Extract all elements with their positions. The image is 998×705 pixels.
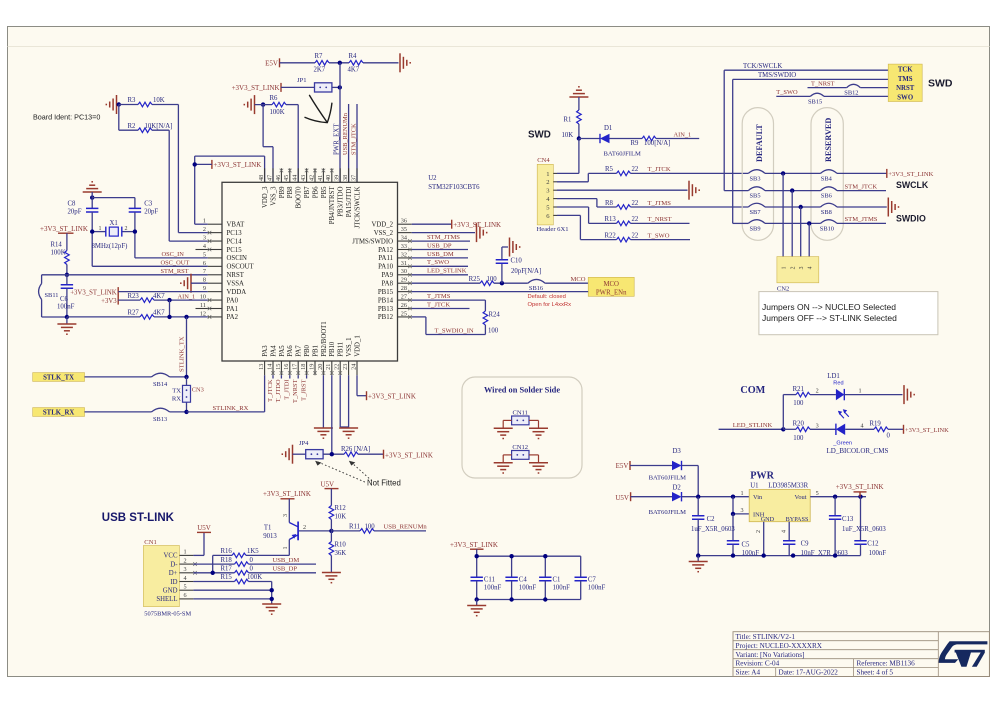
svg-text:PB7: PB7 <box>304 186 311 198</box>
junction rail GND pin <box>762 553 766 557</box>
svg-text:33: 33 <box>401 243 407 250</box>
svg-text:PA12: PA12 <box>378 247 393 254</box>
svg-text:100: 100 <box>487 276 498 283</box>
pin 34 JTMS/SWDIO <box>352 234 412 245</box>
svg-text:PB3/JTDO: PB3/JTDO <box>338 186 345 216</box>
svg-text:STM_RST: STM_RST <box>161 268 189 275</box>
svg-text:7: 7 <box>203 268 206 275</box>
ground below R10 <box>322 573 341 583</box>
svg-text:9013: 9013 <box>263 533 277 540</box>
LED LD1 red <box>827 373 844 401</box>
svg-text:22: 22 <box>632 200 639 207</box>
wire pin32 USB_DM <box>412 257 468 259</box>
svg-text:AIN_1: AIN_1 <box>674 131 692 138</box>
wire U5V to D2 <box>631 496 672 498</box>
wire GND row <box>193 589 271 591</box>
pin 17 PA7 <box>292 345 303 375</box>
svg-text:STM32F103CBT6: STM32F103CBT6 <box>428 184 480 191</box>
svg-text:100nF: 100nF <box>553 584 571 591</box>
resistor R1 10K <box>562 97 582 139</box>
capacitor C12 100nF <box>854 497 886 557</box>
svg-text:4: 4 <box>781 530 787 533</box>
svg-text:R24: R24 <box>489 312 501 319</box>
svg-text:2: 2 <box>203 226 206 233</box>
svg-text:PWR_ENn: PWR_ENn <box>596 289 627 296</box>
svg-text:PB10: PB10 <box>329 341 336 357</box>
pin 6 OSCOUT <box>203 260 255 271</box>
wire JP4 to junction to R26 <box>323 453 383 455</box>
junction R27/AIN_1 branch <box>167 315 171 319</box>
svg-text:20pF: 20pF <box>144 209 158 216</box>
svg-text:Sheet: 4 of 5: Sheet: 4 of 5 <box>857 669 894 677</box>
svg-text:C12: C12 <box>867 541 879 548</box>
wire gnd to R2 to PC14 <box>119 105 208 242</box>
pin 13 PA3 <box>258 345 269 375</box>
svg-text:R17: R17 <box>221 566 233 573</box>
pin 1 VBAT <box>203 218 245 229</box>
svg-text:39: 39 <box>334 175 341 181</box>
wire gnd to JP4 <box>293 453 306 455</box>
wire D+ junction to R16 <box>213 555 290 572</box>
svg-text:MCO: MCO <box>571 276 586 283</box>
svg-text:25: 25 <box>401 310 407 317</box>
svg-text:VBAT: VBAT <box>227 222 246 229</box>
ground at JP4 <box>282 445 292 464</box>
connector CN2 (yellow) <box>777 257 819 293</box>
junction R6/VSS_3 <box>261 102 265 106</box>
ST logo <box>939 641 988 667</box>
svg-text:34: 34 <box>401 234 407 241</box>
svg-text:2: 2 <box>816 388 819 395</box>
ground at C10 <box>510 238 520 257</box>
pin 44 BOOT0 <box>292 168 303 208</box>
svg-text:T_JTMS: T_JTMS <box>427 293 451 300</box>
pin 12 PA2 <box>200 310 239 321</box>
ground below CN1 <box>262 604 281 614</box>
svg-text:15: 15 <box>275 364 282 370</box>
resistor R18 0 <box>221 557 254 567</box>
svg-text:VDD_2: VDD_2 <box>371 222 393 229</box>
diode D1 BAT60JFILM <box>600 125 641 158</box>
resistor R21 100 <box>793 386 810 407</box>
svg-text:SB12: SB12 <box>844 90 858 97</box>
svg-text:11: 11 <box>200 302 206 309</box>
capacitor C5 100nF <box>727 514 759 557</box>
svg-text:PA7: PA7 <box>296 345 303 357</box>
resistor R12 10K <box>329 489 346 531</box>
svg-text:+3V3: +3V3 <box>101 298 117 305</box>
svg-text:42: 42 <box>308 175 315 181</box>
svg-text:JP4: JP4 <box>299 440 309 447</box>
svg-text:USB ST-LINK: USB ST-LINK <box>102 512 175 524</box>
pin 35 VSS_2 <box>374 226 412 237</box>
solder bridge SB12 <box>844 84 860 96</box>
wire pin24 VDD_1 to +3V3 <box>357 375 367 396</box>
svg-text:SB15: SB15 <box>808 99 822 106</box>
wire C3 to X1 pin2 to OSCIN pin5 <box>122 212 208 258</box>
junction R7/R4 <box>338 61 342 65</box>
stadium DEFAULT <box>742 108 773 241</box>
resistor R26 [N/A] <box>341 446 370 456</box>
wire CN4 pin2 to R5 row <box>557 173 748 181</box>
solder bridge SB14 <box>152 373 170 388</box>
pin 47 VSS_3 <box>266 168 277 205</box>
resistor R25 100 <box>469 276 498 286</box>
svg-text:R21: R21 <box>793 386 804 393</box>
pin 43 PB7 <box>300 168 311 198</box>
svg-text:TMS/SWDIO: TMS/SWDIO <box>758 72 796 79</box>
net label STM_JTCK wire to pin 37 <box>356 104 358 182</box>
svg-text:22: 22 <box>632 232 639 239</box>
svg-text:STM_JTCK: STM_JTCK <box>845 183 878 190</box>
svg-text:RESERVED: RESERVED <box>824 118 833 162</box>
pin 25 PB12 <box>378 310 412 321</box>
svg-text:C6: C6 <box>60 296 69 303</box>
svg-text:C4: C4 <box>519 576 528 583</box>
wire pin34 STM_JTMS <box>412 240 470 242</box>
svg-text:E5V: E5V <box>265 59 278 67</box>
hand-drawn arrow at JP1 <box>305 95 332 122</box>
junction STLINK_TX/PA2 <box>184 315 188 319</box>
svg-text:40: 40 <box>325 175 332 181</box>
wire pin29 MCO to R25 <box>412 282 589 284</box>
power port +3V3_ST_LINK at R19 <box>904 425 950 434</box>
wire gnd to R6 to BOOT0 pin44 and VSS_3 pin47 <box>255 105 299 183</box>
svg-text:PA2: PA2 <box>227 314 239 321</box>
svg-text:SWO: SWO <box>897 94 913 101</box>
pin 11 PA1 <box>196 302 238 313</box>
svg-text:100K: 100K <box>270 109 285 116</box>
ground at VSS_2 <box>477 223 487 242</box>
wire CN4 pin6 to R22 row <box>557 215 690 239</box>
capacitor C10 20pF[N/A] <box>496 247 542 283</box>
svg-text:14: 14 <box>266 364 273 370</box>
svg-text:48: 48 <box>258 175 265 181</box>
wire caps top rail <box>477 549 581 556</box>
ground at CN4 pin3 <box>689 181 699 200</box>
svg-text:5: 5 <box>203 251 206 258</box>
svg-text:JTMS/SWDIO: JTMS/SWDIO <box>352 238 393 245</box>
svg-text:100: 100 <box>793 435 804 442</box>
svg-text:PB13: PB13 <box>378 306 394 313</box>
capacitor C3 20pF <box>129 200 159 215</box>
solder bridge SB8 <box>821 203 838 216</box>
svg-text:T1: T1 <box>264 525 272 532</box>
svg-text:10: 10 <box>200 293 206 300</box>
svg-text:PB9: PB9 <box>279 186 286 198</box>
svg-text:PA3: PA3 <box>262 345 269 357</box>
svg-text:Project: NUCLEO-XXXXRX: Project: NUCLEO-XXXXRX <box>736 642 823 650</box>
junction rail C9 <box>791 553 795 557</box>
svg-text:2: 2 <box>184 557 187 564</box>
svg-text:R27: R27 <box>128 310 140 317</box>
junction AIN_1/R27 <box>167 298 171 302</box>
svg-text:3: 3 <box>203 234 206 241</box>
resistor R9 100[N/A] <box>631 136 671 147</box>
pin 37 JTCK/SWCLK <box>350 168 361 228</box>
power port +3V3_ST_LINK at VDD_1 <box>367 391 416 400</box>
svg-text:SWD: SWD <box>528 130 551 141</box>
svg-text:C7: C7 <box>588 576 597 583</box>
svg-text:+3V3_ST_LINK: +3V3_ST_LINK <box>836 483 884 491</box>
svg-text:Jumpers ON --> NUCLEO Selecte: Jumpers ON --> NUCLEO Selected <box>762 302 896 312</box>
svg-text:100nF: 100nF <box>519 584 537 591</box>
svg-text:OSC_IN: OSC_IN <box>162 251 185 258</box>
wire pin27 T_JTMS to R24 <box>412 299 486 301</box>
power port +3V3_ST_LINK at VDD_3/VBAT <box>212 160 261 169</box>
svg-text:T_SWO: T_SWO <box>648 232 670 239</box>
wire pin20 to ground <box>322 375 324 428</box>
svg-text:1: 1 <box>203 218 206 225</box>
svg-text:PB1: PB1 <box>312 345 319 357</box>
svg-text:R19: R19 <box>870 421 882 428</box>
resistor R7 2K7 <box>314 53 330 74</box>
wire U1 Vout row <box>810 496 866 498</box>
svg-text:4K7: 4K7 <box>348 67 360 74</box>
wire E5V to D3 <box>630 465 672 467</box>
wire caps bottom rail <box>477 599 581 601</box>
svg-text:D3: D3 <box>673 448 682 455</box>
svg-text:USB_DP: USB_DP <box>427 242 452 249</box>
svg-text:16: 16 <box>283 364 290 370</box>
wire +3V3 node to VDD_3 pin48 and VBAT pin1 <box>195 156 265 224</box>
svg-text:13: 13 <box>258 364 265 370</box>
svg-text:SB4: SB4 <box>821 176 833 183</box>
svg-text:27: 27 <box>401 293 407 300</box>
svg-text:+3V3_ST_LINK: +3V3_ST_LINK <box>888 171 933 178</box>
svg-text:PB8: PB8 <box>287 186 294 198</box>
title block text <box>736 633 916 677</box>
resistor R27 4K7 <box>128 310 166 320</box>
pin 45 PB8 <box>283 168 294 198</box>
junction SB3 row <box>781 171 785 175</box>
pin 30 PA9 <box>382 268 412 279</box>
wire pin31 T_SWO <box>412 265 468 267</box>
wire E5V to R7 to R4 to ground <box>280 62 399 64</box>
svg-text:SB3: SB3 <box>750 176 761 183</box>
wire D3 to Vin node <box>682 466 699 497</box>
svg-text:R9: R9 <box>631 140 640 147</box>
power port U5V at D2 <box>615 492 630 502</box>
resistor R4 4K7 <box>348 53 364 74</box>
connector CN4 Header 6X1 <box>537 157 569 233</box>
svg-text:PB0: PB0 <box>304 344 311 356</box>
svg-text:1: 1 <box>184 549 187 556</box>
svg-text:STLINK_TX: STLINK_TX <box>179 336 186 372</box>
svg-text:6: 6 <box>203 260 206 267</box>
ground above C8/C3 <box>83 182 102 192</box>
svg-text:100K: 100K <box>247 574 262 581</box>
junction C6 bottom <box>65 315 69 319</box>
resistor R6 100K <box>270 95 287 116</box>
svg-text:100nF: 100nF <box>869 550 887 557</box>
wire ID to R15 to ground rail <box>193 582 271 605</box>
svg-text:NRST: NRST <box>227 272 245 279</box>
svg-text:C3: C3 <box>144 200 153 207</box>
annotation Not Fitted with arrows <box>315 461 401 488</box>
pin 29 PA8 <box>382 277 412 288</box>
svg-text:4K7: 4K7 <box>153 293 165 300</box>
jumper JP1 <box>297 77 332 92</box>
svg-text:_Green: _Green <box>832 440 852 446</box>
svg-text:R2: R2 <box>128 123 137 130</box>
svg-text:3: 3 <box>283 514 289 517</box>
svg-text:+3V3_ST_LINK: +3V3_ST_LINK <box>40 225 88 233</box>
svg-text:21: 21 <box>325 364 332 370</box>
svg-text:100K: 100K <box>51 250 66 257</box>
wire junction up to R21 row <box>782 395 784 430</box>
svg-text:10K[N/A]: 10K[N/A] <box>145 123 173 130</box>
svg-text:41: 41 <box>317 175 324 181</box>
svg-text:38: 38 <box>342 175 349 181</box>
power port +3V3_ST_LINK above R14 <box>40 225 88 233</box>
svg-text:22: 22 <box>334 364 341 370</box>
svg-text:R14: R14 <box>51 241 63 248</box>
power port U5V at CN1 <box>197 524 211 532</box>
svg-text:+3V3_ST_LINK: +3V3_ST_LINK <box>450 541 498 549</box>
svg-text:4: 4 <box>861 422 864 429</box>
svg-text:T_JTDI: T_JTDI <box>284 380 291 400</box>
wire CN4 pin4 to R8 row <box>557 199 748 207</box>
junction caps rail C1 <box>543 554 547 558</box>
junction +3V3/VBAT <box>193 162 197 166</box>
svg-text:SB5: SB5 <box>750 193 761 200</box>
svg-text:Red: Red <box>833 381 843 387</box>
wire pin28 PWR_ENn <box>412 291 589 293</box>
svg-text:PB12: PB12 <box>378 314 394 321</box>
wire VSSA stub <box>191 282 208 284</box>
svg-text:D1: D1 <box>604 125 612 132</box>
wire R11 row <box>331 530 426 532</box>
solder bridge SB10 <box>820 220 837 233</box>
ground CN12 right <box>529 463 548 473</box>
svg-text:100: 100 <box>365 524 376 531</box>
junction R25/C10 <box>500 281 504 285</box>
svg-text:47: 47 <box>266 175 273 181</box>
pin 42 PB6 <box>308 168 319 198</box>
svg-text:23: 23 <box>342 364 349 370</box>
svg-text:6: 6 <box>184 592 187 599</box>
svg-text:3: 3 <box>741 507 744 514</box>
wire pin26 T_JTCK <box>412 308 470 310</box>
pin 3 PC14 <box>203 234 242 245</box>
svg-text:20pF[N/A]: 20pF[N/A] <box>511 268 541 275</box>
svg-text:30: 30 <box>401 268 407 275</box>
wire SB13 to junction <box>170 411 187 413</box>
svg-text:BAT60JFILM: BAT60JFILM <box>649 509 687 516</box>
wire VDD_2 pin36 to +3V3 <box>412 223 452 225</box>
wire red LED to ground <box>844 394 902 396</box>
svg-text:2K7: 2K7 <box>314 67 326 74</box>
junction SHELL rail <box>270 597 274 601</box>
svg-text:T_NRST: T_NRST <box>648 216 672 223</box>
wire SB5 to SB6 <box>765 190 886 192</box>
svg-text:Wired on Solder Side: Wired on Solder Side <box>484 386 560 395</box>
svg-text:R4: R4 <box>349 53 358 60</box>
wire LED_STLINK to junction <box>719 428 784 430</box>
junction GND rail <box>270 588 274 592</box>
junction X1 pin1 <box>90 229 94 233</box>
junction R14/NRST/C6/SB11 <box>65 273 69 277</box>
svg-text:4: 4 <box>203 243 206 250</box>
svg-text:U5V: U5V <box>615 494 629 502</box>
svg-text:OSCIN: OSCIN <box>227 255 247 262</box>
svg-text:D2: D2 <box>673 485 682 492</box>
wire STLINK_TX vertical <box>186 317 188 377</box>
svg-text:Open for L4xxRx: Open for L4xxRx <box>528 302 572 308</box>
pin 18 PB0 <box>300 344 311 375</box>
wire SB3 to SB4 <box>765 172 887 174</box>
svg-text:43: 43 <box>300 175 307 181</box>
svg-text:LD_BICOLOR_CMS: LD_BICOLOR_CMS <box>827 447 889 455</box>
svg-text:31: 31 <box>401 260 407 267</box>
power port +3V3_ST_LINK at VDDA <box>70 287 118 296</box>
capacitor C2 1uF_X5R_0603 <box>691 497 735 556</box>
svg-text:PWR: PWR <box>750 470 774 481</box>
junction R12/R10/R11/T1 <box>329 529 333 533</box>
resistor R17 0 <box>221 566 254 576</box>
svg-text:SHELL: SHELL <box>156 596 177 603</box>
svg-text:C13: C13 <box>842 516 854 523</box>
svg-text:TCK/SWCLK: TCK/SWCLK <box>743 63 782 70</box>
svg-text:SB8: SB8 <box>821 209 832 216</box>
pin 2 PC13 <box>203 226 242 237</box>
pin 46 PB9 <box>275 168 286 198</box>
wire T1 base to node <box>299 530 331 532</box>
svg-text:R26 [N/A]: R26 [N/A] <box>341 446 370 453</box>
resistor R15 100K <box>221 574 263 584</box>
svg-text:12: 12 <box>200 310 206 317</box>
junction caps rail C11 <box>475 554 479 558</box>
wire VCC to U5V <box>193 532 204 555</box>
wire gnd to C8 and C3 <box>92 192 135 208</box>
pin 7 NRST <box>203 268 245 279</box>
wire VDDA pin 9 <box>118 291 208 293</box>
wire junction to D1 <box>579 138 600 140</box>
svg-text:Header 6X1: Header 6X1 <box>537 226 569 233</box>
power port +3V3_ST_LINK at T1 collector <box>263 490 311 499</box>
solder bridge SB6 <box>821 187 838 200</box>
power port E5V at D3 <box>616 461 630 470</box>
svg-text:SB13: SB13 <box>153 416 167 423</box>
svg-text:0: 0 <box>887 433 891 440</box>
wire D1 to R9 to AIN_1 <box>610 138 700 140</box>
svg-text:T_JTMS: T_JTMS <box>648 200 672 207</box>
svg-text:+3V3_ST_LINK: +3V3_ST_LINK <box>905 427 949 434</box>
solder bridge SB9 <box>748 220 765 233</box>
svg-text:100: 100 <box>793 400 804 407</box>
svg-text:DEFAULT: DEFAULT <box>755 124 764 162</box>
power port +3V3 at R23 <box>101 296 118 305</box>
svg-text:U1: U1 <box>750 483 758 490</box>
svg-text:VCC: VCC <box>164 553 178 560</box>
pin 10 PA0 <box>200 293 239 304</box>
svg-text:T_JTDO: T_JTDO <box>275 379 282 402</box>
junction INH/C5 branch <box>731 495 735 499</box>
junction TX/CN3 <box>184 375 188 379</box>
svg-text:STLK_RX: STLK_RX <box>43 410 74 417</box>
pin 24 VDD_1 <box>350 335 361 375</box>
junction SB7 row <box>799 205 803 209</box>
net label T_NRST below MCU <box>292 375 299 403</box>
wire NRST net to pin 7 <box>67 274 208 276</box>
svg-text:100nF: 100nF <box>588 584 606 591</box>
junction X1 pin2 <box>133 229 137 233</box>
junction R3/R2 at ground <box>117 102 121 106</box>
svg-text:PB2/BOOT1: PB2/BOOT1 <box>321 321 328 357</box>
resistor R3 10K <box>128 97 165 107</box>
svg-text:CN3: CN3 <box>192 387 204 394</box>
